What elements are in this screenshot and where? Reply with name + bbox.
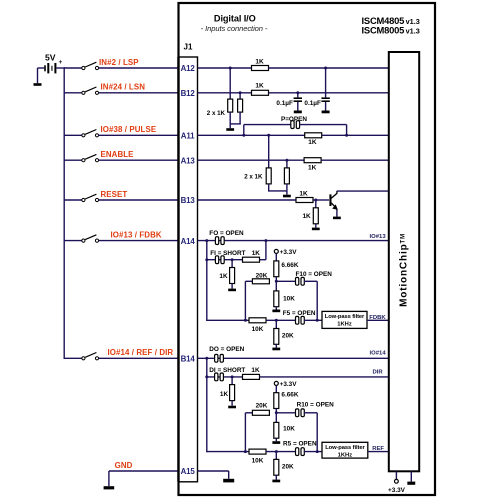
ground under C1: [294, 111, 302, 114]
ground under battery: [34, 83, 42, 86]
wire R9 bottom to ground: [231, 284, 233, 289]
svg-text:+: +: [59, 59, 63, 66]
node REF/R22 junction: [275, 450, 278, 453]
wire FI return riser: [265, 241, 267, 260]
switch SW6 (IO#13 / FDBK): [82, 239, 85, 242]
wire C1 to ground: [297, 102, 299, 111]
node B12/R3b junction: [239, 91, 242, 94]
wire +3.3V to R11: [275, 253, 277, 261]
node FDBK/F10 junction: [316, 319, 319, 322]
node A12/C2 junction: [324, 67, 327, 70]
node DI/R16 junction: [231, 375, 234, 378]
svg-text:FDBK: FDBK: [369, 315, 386, 321]
terminal +3.3V (MotionChip supply): [395, 479, 399, 483]
wire switch SW5 to J1: [99, 199, 180, 201]
wire bus to switch SW3: [64, 134, 82, 136]
wire R10 jumper to drop: [304, 412, 317, 414]
wire R12 drop to FDBK row: [244, 281, 246, 321]
jumper FO: [215, 237, 218, 245]
wire R8 bottom to ground: [315, 224, 317, 228]
node A11/R5 junction: [267, 134, 270, 137]
node B13/R8 junction: [314, 199, 317, 202]
resistor R3b 1K (pull-down B12): [238, 99, 243, 112]
node A13/R5b junction: [285, 159, 288, 162]
svg-text:IO#13 / FDBK: IO#13 / FDBK: [111, 230, 162, 239]
capacitor C2 0.1uF: [321, 97, 329, 99]
wire B14 left drop: [206, 358, 208, 452]
ground under Q1 emitter: [333, 217, 341, 220]
wire J1.B13 to R7: [198, 199, 297, 201]
jumper F10: [296, 277, 299, 285]
wire J1.B12 to R2: [198, 92, 253, 94]
wire R22 to ground: [275, 475, 277, 479]
transistor Q1 collector stroke: [331, 191, 337, 198]
svg-text:1KHz: 1KHz: [337, 322, 352, 328]
ground under MotionChip: [407, 482, 415, 485]
svg-text:10K: 10K: [252, 326, 264, 333]
svg-text:1K: 1K: [251, 367, 260, 374]
wire bus to switch SW7: [64, 357, 82, 359]
wire battery ground stub: [37, 68, 39, 83]
ground under R9: [228, 289, 236, 292]
svg-text:0.1µF: 0.1µF: [304, 100, 321, 107]
svg-text:IO#38 / PULSE: IO#38 / PULSE: [101, 125, 157, 134]
terminal +3.3V (FDBK pull-up): [274, 249, 278, 253]
svg-text:1K: 1K: [302, 213, 311, 220]
svg-text:GND: GND: [115, 461, 133, 470]
switch SW5 (RESET): [82, 198, 85, 201]
wire battery positive to bus: [56, 67, 65, 69]
node FDBK/R15 junction: [275, 319, 278, 322]
wire C2 to ground: [325, 102, 327, 111]
switch SW1 (IN#2 / LSP): [82, 66, 85, 69]
wire R13 to ground: [275, 307, 277, 310]
svg-text:6.66K: 6.66K: [281, 392, 298, 399]
wire J1.A13 to R6: [198, 159, 305, 161]
wire F10 to drop: [304, 280, 317, 282]
wire J1.B14 to MotionChip IO#14: [198, 357, 390, 359]
svg-text:A15: A15: [181, 467, 196, 476]
wire J1.A15 to ground: [198, 470, 229, 472]
wire switch SW7 to J1: [99, 357, 180, 359]
svg-text:1K: 1K: [255, 83, 264, 90]
switch SW2 (IN#24 / LSN): [82, 91, 85, 94]
svg-text:IO#14 / REF / DIR: IO#14 / REF / DIR: [108, 348, 174, 357]
svg-text:+3.3V: +3.3V: [388, 487, 406, 494]
wire R7 to Q1 base: [313, 199, 329, 201]
svg-text:REF: REF: [372, 446, 384, 452]
jumper FI: [215, 256, 218, 264]
svg-text:IO#13: IO#13: [370, 234, 387, 240]
node F divider junction: [275, 280, 278, 283]
svg-text:Low-pass filter: Low-pass filter: [325, 314, 365, 320]
node A11/P-bypass left junction: [242, 134, 245, 137]
svg-text:20K: 20K: [282, 333, 294, 340]
wire R5 jumper to filter: [304, 451, 322, 453]
node FI/R9 junction: [231, 258, 234, 261]
svg-text:RESET: RESET: [101, 190, 128, 199]
ground under R20: [272, 441, 280, 444]
svg-text:10K: 10K: [283, 426, 295, 433]
svg-text:R10 = OPEN: R10 = OPEN: [297, 402, 335, 409]
wire R20 to ground: [275, 438, 277, 441]
resistor R4 1K (row A11): [305, 133, 322, 138]
resistor R13 10K (pull-down): [274, 291, 279, 307]
node FDBK/R12 junction: [244, 319, 247, 322]
svg-text:A14: A14: [181, 237, 196, 246]
svg-text:B14: B14: [181, 355, 196, 364]
wire bus to switch SW4: [64, 159, 82, 161]
resistor R5a 1K (pull-down A11): [266, 168, 271, 184]
wire R17 to MotionChip DIR: [260, 376, 390, 378]
wire filter U2 to MotionChip FDBK: [367, 319, 389, 321]
svg-text:P=OPEN: P=OPEN: [281, 116, 307, 123]
node DI row junction: [205, 375, 208, 378]
svg-text:B13: B13: [181, 196, 196, 205]
wire 5V vertical bus: [63, 67, 65, 359]
svg-text:- Inputs connection -: - Inputs connection -: [201, 24, 268, 33]
wire J1.A11 to R4: [198, 134, 306, 136]
wire DI row: [207, 376, 243, 378]
wire battery negative lead: [38, 67, 45, 69]
wire R2 to MotionChip IN#24: [269, 92, 390, 94]
svg-text:R5 = OPEN: R5 = OPEN: [283, 440, 317, 447]
svg-text:MotionChipTM: MotionChipTM: [398, 233, 409, 307]
svg-text:DI = SHORT: DI = SHORT: [209, 367, 245, 374]
svg-text:20K: 20K: [256, 403, 268, 410]
node R divider junction: [275, 411, 278, 414]
resistor R21 10K (REF series): [249, 449, 266, 454]
wire B12 down to C1: [297, 93, 299, 98]
svg-text:DIR: DIR: [373, 370, 384, 376]
node A14/FI-return junction: [264, 239, 267, 242]
wire R14 to F5: [266, 319, 296, 321]
resistor R3a 1K (pull-down A12): [228, 99, 233, 112]
svg-text:B12: B12: [181, 89, 196, 98]
svg-text:0.1µF: 0.1µF: [276, 100, 293, 107]
wire R19 drop to REF row: [244, 413, 246, 453]
transistor Q1 base bar: [329, 194, 331, 206]
ground under C2: [322, 111, 330, 114]
wire R16 bottom to ground: [231, 401, 233, 406]
jumper F5: [296, 316, 299, 324]
resistor R5b 1K (pull-down A13): [284, 168, 289, 184]
wire A14 left drop: [206, 241, 208, 321]
wire R22 top stub: [275, 452, 277, 460]
switch SW3 (IO#38 / PULSE): [82, 134, 85, 137]
jumper DO: [215, 354, 218, 362]
wire MotionChip ground pin: [410, 471, 412, 481]
svg-text:F5 = OPEN: F5 = OPEN: [283, 310, 316, 317]
svg-text:IN#2 / LSP: IN#2 / LSP: [99, 58, 139, 67]
svg-text:20K: 20K: [256, 273, 268, 280]
wire switch SW3 to J1: [99, 134, 180, 136]
wire R8 top stub: [315, 200, 317, 208]
node REF/R10 junction: [316, 450, 319, 453]
svg-text:FO = OPEN: FO = OPEN: [209, 230, 244, 237]
svg-text:Digital I/O: Digital I/O: [214, 13, 256, 23]
wire switch SW4 to J1: [99, 159, 180, 161]
resistor R15 20K (pull-down): [274, 329, 279, 345]
resistor R7 1K (row B13): [296, 198, 313, 203]
switch SW7 (IO#14 / REF / DIR): [82, 357, 85, 360]
wire node R to R20: [275, 413, 277, 423]
resistor R1 1K (row A12): [252, 66, 269, 71]
wire A11 down to R5a: [268, 135, 270, 168]
svg-text:10K: 10K: [283, 295, 295, 302]
wire R21 to R5 jumper: [266, 451, 296, 453]
connector J1 box: [179, 57, 198, 482]
wire R3a bottom to ground: [229, 112, 231, 128]
wire R3b bottom joins R3a: [239, 112, 241, 124]
node A12/R3a junction: [229, 67, 232, 70]
wire R6 to MotionChip ENABLE: [321, 159, 389, 161]
resistor R16 1K (pull-down DI): [230, 385, 235, 401]
svg-text:A12: A12: [181, 64, 196, 73]
wire J1.A14 to MotionChip IO#13: [198, 240, 390, 242]
ground under R13: [272, 310, 280, 313]
resistor R22 20K (pull-down): [274, 459, 279, 475]
wire node F to F10: [276, 280, 296, 282]
wire Q1 emitter to ground: [336, 209, 338, 216]
battery B1 plates: [44, 65, 46, 71]
svg-text:IN#24 / LSN: IN#24 / LSN: [101, 83, 146, 92]
wire P-bypass top left: [244, 124, 291, 126]
svg-text:+3.3V: +3.3V: [280, 249, 298, 256]
svg-text:J1: J1: [184, 43, 193, 52]
wire switch SW1 to J1: [99, 67, 180, 69]
jumper P: [291, 121, 294, 129]
wire +3.3V to R18: [275, 385, 277, 392]
node B14 left junction: [205, 357, 208, 360]
resistor R6 1K (row A13): [304, 158, 321, 163]
wire GND ground stub: [108, 471, 110, 486]
wire node F to R13: [275, 281, 277, 291]
connector J1 left edge thick: [177, 57, 179, 482]
wire R10 to riser: [260, 259, 266, 261]
wire FI row: [207, 259, 243, 261]
wire Q1 collector to MotionChip RESET: [337, 190, 389, 192]
svg-text:ISCM8005: ISCM8005: [362, 25, 405, 36]
svg-text:2 x 1K: 2 x 1K: [207, 110, 226, 117]
jumper R5: [296, 448, 299, 456]
wire F5 to filter: [304, 319, 322, 321]
svg-text:1KHz: 1KHz: [338, 452, 353, 458]
resistor R9 1K (pull-down FI): [230, 268, 235, 284]
wire R15 top stub: [275, 320, 277, 328]
wire A13 down to R5b: [286, 160, 288, 168]
schematic outer border frame: [179, 3, 436, 495]
low-pass filter U2 box: [322, 311, 367, 328]
wire bus to switch SW1: [64, 67, 82, 69]
svg-text:1K: 1K: [219, 273, 228, 280]
wire switch SW2 to J1: [99, 92, 180, 94]
svg-text:1K: 1K: [299, 190, 308, 197]
svg-text:A13: A13: [181, 156, 196, 165]
ground under R16: [228, 406, 236, 409]
wire R5b bottom to ground: [286, 184, 288, 195]
ground under R15: [272, 348, 280, 351]
wire R18 to node R: [275, 409, 277, 413]
wire R4 to MotionChip IO#38: [322, 134, 389, 136]
jumper DI: [215, 373, 218, 381]
wire B12 down to R3b: [239, 93, 241, 99]
ground under R5 pair: [283, 195, 291, 198]
resistor R14 10K (FDBK series): [249, 318, 266, 323]
wire R11 to node F: [275, 277, 277, 282]
wire R5a bottom to join: [268, 184, 270, 191]
svg-text:1K: 1K: [308, 139, 317, 146]
MotionChip U1 box: [389, 52, 419, 471]
svg-text:1K: 1K: [252, 250, 261, 257]
capacitor C1 0.1uF: [294, 97, 302, 99]
wire A12 down to R3a: [229, 68, 231, 99]
resistor R10 1K (FI series): [243, 257, 260, 262]
node B12/C1 junction: [296, 91, 299, 94]
wire node R to R10 jumper: [276, 412, 296, 414]
svg-text:IO#14: IO#14: [370, 351, 387, 357]
wire F10 drop to FDBK row: [316, 281, 318, 321]
svg-text:v1.3: v1.3: [406, 17, 420, 26]
resistor R19 20K (series): [252, 410, 269, 415]
wire switch SW6 to J1: [99, 240, 180, 242]
node A14 left junction: [205, 239, 208, 242]
wire R19 left to drop: [245, 412, 252, 414]
svg-text:DO = OPEN: DO = OPEN: [209, 346, 244, 353]
wire REF row left: [207, 451, 250, 453]
wire GND to J1 pin A15: [109, 470, 180, 472]
svg-text:1K: 1K: [308, 164, 317, 171]
switch SW4 (ENABLE): [82, 159, 85, 162]
wire P-bypass top right: [299, 124, 346, 126]
svg-text:20K: 20K: [282, 463, 294, 470]
wire R12 left to drop: [245, 280, 252, 282]
svg-text:1K: 1K: [220, 391, 229, 398]
ground at A15: [223, 479, 234, 483]
ground under R8: [312, 228, 320, 231]
svg-text:FI = SHORT: FI = SHORT: [210, 250, 245, 257]
wire filter U3 to MotionChip REF: [368, 451, 389, 453]
svg-text:ENABLE: ENABLE: [101, 150, 134, 159]
resistor R8 1K (pull-down base): [313, 208, 318, 224]
resistor R11 6.66K: [274, 261, 279, 277]
wire MotionChip +3.3V pin: [395, 471, 397, 479]
ground under R22: [272, 480, 280, 483]
wire R10 drop to REF row: [316, 413, 318, 453]
ground under R3 pair: [226, 128, 234, 131]
wire R15 to ground: [275, 344, 277, 347]
wire R16 top stub: [231, 377, 233, 385]
wire bus to switch SW2: [64, 92, 82, 94]
jumper R10: [296, 409, 299, 417]
transistor Q1 emitter arrowhead: [332, 204, 338, 210]
svg-text:Low-pass filter: Low-pass filter: [325, 445, 365, 451]
svg-text:+3.3V: +3.3V: [280, 381, 298, 388]
node REF/R19 junction: [244, 450, 247, 453]
node P-bypass right junction: [345, 134, 348, 137]
resistor R17 1K (DI series): [243, 374, 260, 379]
wire bus to switch SW5: [64, 199, 82, 201]
wire P-bypass right riser: [346, 125, 348, 136]
ground at GND rail: [104, 486, 115, 489]
svg-text:1K: 1K: [255, 58, 264, 65]
wire A12 down to C2: [325, 68, 327, 97]
wire FDBK row left: [207, 319, 250, 321]
resistor R20 10K (pull-down): [274, 422, 279, 438]
wire R1 to MotionChip IN#2: [269, 67, 390, 69]
svg-text:A11: A11: [181, 132, 195, 141]
wire bus to switch SW6: [64, 240, 82, 242]
svg-text:5V: 5V: [45, 53, 56, 63]
resistor R12 20K (series): [252, 279, 269, 284]
resistor R18 6.66K: [274, 393, 279, 409]
resistor R2 1K (row B12): [252, 90, 269, 95]
wire J1.A12 to R1: [198, 67, 253, 69]
wire P-bypass left riser: [243, 125, 245, 136]
terminal +3.3V (REF pull-up): [274, 381, 278, 385]
low-pass filter U3 box: [322, 442, 368, 458]
svg-text:10K: 10K: [252, 457, 264, 464]
node FI row junction: [205, 258, 208, 261]
transistor Q1 emitter stroke: [331, 203, 336, 208]
svg-text:6.66K: 6.66K: [281, 262, 298, 269]
svg-text:2 x 1K: 2 x 1K: [244, 173, 263, 180]
wire A15 ground stub: [228, 471, 230, 479]
svg-text:v1.3: v1.3: [406, 27, 420, 36]
svg-text:F10 = OPEN: F10 = OPEN: [296, 271, 333, 278]
wire R9 top stub: [231, 260, 233, 268]
